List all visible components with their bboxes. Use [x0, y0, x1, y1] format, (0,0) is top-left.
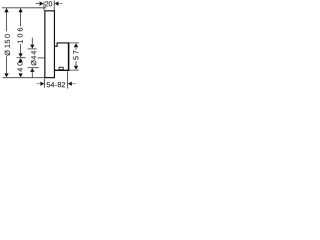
arrow down 40	[18, 73, 22, 77]
dimension line 106 lower segment	[20, 44, 22, 53]
dimension line 57 upper	[75, 48, 77, 50]
label 57	[45, 1, 52, 6]
arrow right 20	[40, 1, 44, 5]
valve step outline	[55, 43, 68, 46]
extension line 20 left	[43, 2, 45, 11]
arrow up 57	[74, 43, 78, 47]
arrow down 106	[18, 53, 22, 57]
dimension tail 44 bottom	[31, 72, 33, 78]
arrow left 20	[55, 1, 59, 5]
extension line 57 bottom	[70, 69, 79, 71]
top extension line	[2, 7, 47, 9]
dimension line 150 upper segment	[6, 9, 8, 32]
label Ø44	[31, 51, 36, 66]
label 20	[73, 51, 78, 60]
dimension tail 20 left	[36, 3, 40, 5]
dimension tail 54-82 left	[37, 83, 41, 85]
extension line 54-82 right	[67, 71, 69, 88]
bottom extension line	[3, 77, 45, 79]
arrow right 54-82	[40, 82, 44, 86]
label Ø 150	[5, 34, 10, 55]
reference line 44 top	[28, 48, 37, 50]
arrow up 44	[30, 68, 34, 72]
arrow up 40	[18, 58, 22, 62]
dimension line 57 lower	[75, 61, 77, 65]
extension line 20 right	[53, 1, 55, 11]
dimension tail 44 top	[31, 38, 33, 45]
reference line 44 bottom	[28, 67, 39, 69]
arrow up 106	[18, 8, 22, 12]
arrow up 150	[4, 8, 8, 12]
connection stub box	[59, 67, 63, 70]
extension line 57 top	[70, 42, 79, 44]
wall bottom line	[55, 69, 69, 71]
dimension line 150 lower segment	[6, 56, 8, 73]
extension line 54-82 left	[43, 79, 45, 88]
label 54-82	[47, 82, 65, 87]
reference line at 106	[17, 57, 26, 59]
dimension tail 54-82 right	[72, 83, 76, 85]
label 40	[17, 62, 22, 72]
arrow left 54-82	[68, 82, 72, 86]
wall vertical line	[68, 42, 70, 71]
label 106	[18, 28, 23, 43]
plate side view rectangle	[45, 11, 55, 78]
arrow down 150	[4, 73, 8, 77]
reference line at 106 right part	[38, 57, 45, 59]
dimension tail 20 right	[59, 3, 63, 5]
dimension line 106 upper segment	[20, 9, 22, 27]
arrow down 57	[74, 66, 78, 70]
arrow down 44	[30, 45, 34, 49]
